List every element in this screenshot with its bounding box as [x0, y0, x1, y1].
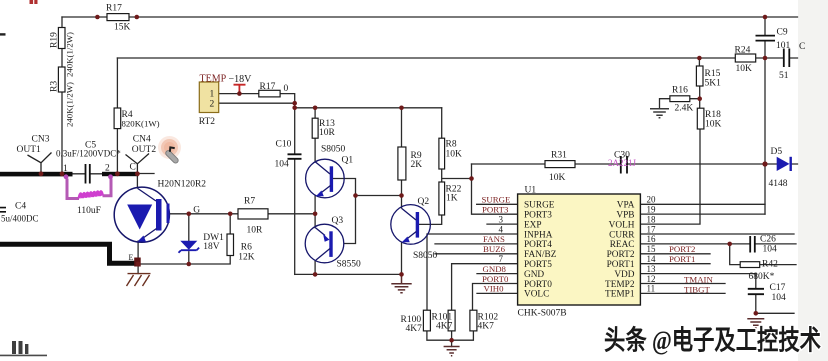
svg-text:H20N120R2: H20N120R2 [158, 180, 207, 190]
wire R8-R22 junction tap y178.5 [442, 169, 472, 182]
wire DW1 leads [188, 214, 190, 264]
wire D5 net horizontal y164 [472, 163, 798, 165]
resistor R15 [696, 66, 703, 86]
svg-text:VIH0: VIH0 [484, 284, 505, 294]
svg-text:15: 15 [647, 244, 657, 254]
wire U1 pin11 stub [640, 292, 725, 294]
svg-text:C26: C26 [760, 235, 776, 245]
svg-text:680K*: 680K* [749, 272, 775, 282]
svg-text:10R: 10R [247, 226, 264, 236]
wire U1 pin1 SURGE stub [477, 203, 518, 205]
right cut-off strip [798, 0, 828, 361]
wire TEMP pin1 to R17(0) [219, 94, 295, 154]
svg-text:12K: 12K [238, 253, 255, 263]
svg-text:C: C [799, 42, 805, 52]
svg-text:4: 4 [499, 224, 504, 234]
ground below R101 [444, 347, 460, 356]
U1 pin names [524, 201, 635, 300]
svg-text:R24: R24 [735, 46, 751, 56]
wire U1 pin4 INPHA to R100 [427, 234, 518, 310]
svg-text:C: C [130, 163, 136, 173]
svg-text:U1: U1 [525, 186, 537, 196]
svg-text:OUT2: OUT2 [132, 145, 157, 155]
wire R4 vertical x117 [116, 58, 118, 173]
svg-text:104: 104 [772, 293, 787, 303]
svg-text:PORT1: PORT1 [669, 254, 695, 264]
capacitor C10 plates [288, 154, 302, 159]
svg-text:51: 51 [779, 71, 789, 81]
connector TEMP RT2 box [199, 82, 218, 113]
wire R6 leads [138, 214, 230, 264]
svg-text:4K7: 4K7 [436, 322, 453, 332]
svg-text:R17: R17 [260, 82, 276, 92]
svg-text:EXP: EXP [524, 220, 542, 230]
transistor Q3 S8550 [305, 224, 344, 263]
svg-text:7: 7 [499, 254, 504, 264]
svg-text:TEMP: TEMP [200, 74, 227, 85]
svg-text:16: 16 [647, 234, 657, 244]
wire TEMP pin2 [219, 102, 295, 104]
svg-text:FANS: FANS [483, 234, 505, 244]
svg-text:R6: R6 [241, 243, 252, 253]
wire U1 pin16 to C26 [640, 243, 796, 245]
wire U1 pin10 VIH0 stub [477, 292, 518, 294]
resistor R13 [312, 118, 318, 138]
svg-text:4148: 4148 [769, 179, 788, 189]
wire rail y58 [117, 57, 797, 59]
wire U1 pin20 [640, 203, 765, 205]
svg-text:REAC: REAC [610, 240, 635, 250]
svg-text:3: 3 [499, 215, 504, 225]
svg-text:10R: 10R [319, 128, 336, 138]
svg-text:CN3: CN3 [32, 135, 50, 145]
power symbol -18V [234, 85, 246, 94]
connector CN4 [126, 154, 150, 173]
U1 right pin numbers [499, 195, 657, 294]
capacitor C5 plates [86, 164, 90, 184]
svg-text:R31: R31 [551, 151, 567, 161]
wire U1 pin13 VDD to C17 [640, 274, 755, 289]
wire CN4 stub right [139, 173, 155, 175]
svg-text:R18: R18 [705, 110, 721, 120]
svg-text:5u/400DC: 5u/400DC [1, 214, 39, 224]
svg-text:11: 11 [647, 284, 656, 294]
IGBT H20N120R2 [114, 187, 169, 242]
connector CN3 [28, 153, 52, 173]
svg-text:110uF: 110uF [77, 206, 101, 216]
svg-text:19: 19 [647, 205, 657, 215]
svg-text:S8050: S8050 [321, 145, 346, 155]
inductor 110uF [67, 179, 111, 199]
svg-text:头条 @电子及工控技术: 头条 @电子及工控技术 [604, 326, 821, 356]
svg-text:820K(1W): 820K(1W) [122, 119, 160, 129]
wire U1 pin19 [640, 213, 765, 215]
svg-text:12: 12 [647, 274, 656, 284]
svg-text:0.3uF/1200VDC*: 0.3uF/1200VDC* [56, 149, 121, 159]
transistor Q2 S8050 [391, 205, 431, 245]
svg-text:TEMP1: TEMP1 [605, 290, 635, 300]
capacitor C9 plates [756, 36, 776, 41]
resistor R17 (15K) [107, 14, 129, 21]
svg-text:CN4: CN4 [133, 135, 151, 145]
wire U1 pin3 EXP stub [487, 223, 518, 225]
wire R19 chain vertical x62 [61, 17, 63, 173]
wire Q2 collector [401, 196, 403, 209]
wire R9 leads [401, 108, 403, 196]
svg-text:VPA: VPA [617, 201, 635, 211]
wire C5 thin links [73, 173, 103, 175]
svg-text:C10: C10 [276, 140, 292, 150]
svg-text:17: 17 [647, 224, 657, 234]
svg-text:PORT0: PORT0 [482, 274, 509, 284]
resistor R6 [227, 234, 234, 256]
wire U1 pin17 [640, 233, 794, 235]
svg-text:R42: R42 [762, 260, 778, 270]
svg-text:1: 1 [210, 90, 215, 100]
svg-text:Q2: Q2 [418, 197, 430, 207]
wire R15 chain x700 [698, 58, 700, 108]
svg-text:CHK-S007B: CHK-S007B [518, 309, 567, 319]
svg-text:101: 101 [776, 41, 791, 51]
wire U1 pin12 stub [640, 283, 725, 285]
resistor R19 [58, 28, 65, 49]
svg-text:104: 104 [763, 245, 778, 255]
IC U1 box [518, 194, 641, 305]
wire top rail y17 right of R17 [129, 16, 798, 18]
svg-text:1K: 1K [446, 194, 458, 204]
svg-text:240K(1/2W): 240K(1/2W) [65, 32, 75, 77]
svg-text:D5: D5 [771, 147, 783, 157]
wire C17 bottom to ground [756, 295, 794, 314]
svg-text:FAN/BZ: FAN/BZ [524, 250, 557, 260]
svg-text:R8: R8 [446, 140, 457, 150]
net labels [482, 195, 714, 295]
wire Q3 collector down [314, 261, 316, 275]
thick bus bottom [0, 244, 136, 263]
wire C9 vertical x765 [764, 17, 766, 214]
svg-text:Q1: Q1 [342, 156, 354, 166]
wire R16 to ground [660, 99, 700, 109]
svg-text:S8550: S8550 [337, 260, 362, 270]
svg-text:C17: C17 [770, 283, 786, 293]
wire U1 pin6 BUZ6 stub [435, 253, 518, 255]
red mark top-left corner [30, 0, 34, 4]
svg-text:GND: GND [524, 270, 544, 280]
capacitor C17 plates [748, 289, 764, 294]
svg-text:PORT2: PORT2 [669, 244, 695, 254]
svg-text:10K: 10K [705, 120, 722, 130]
svg-text:INPHA: INPHA [524, 230, 553, 240]
wire IGBT emitter to slash ground [137, 264, 139, 274]
wire bases to Q2 collector y195.5 [356, 195, 402, 197]
wire R8 top lead [441, 108, 443, 138]
svg-text:PORT1: PORT1 [607, 260, 635, 270]
svg-text:10K: 10K [446, 150, 463, 160]
resistor R7 [238, 209, 268, 219]
wire U1 pin9 PORT0 to R102 [473, 284, 518, 311]
svg-text:14: 14 [647, 254, 657, 264]
svg-text:0: 0 [284, 84, 289, 94]
thick bus top segment 2 [102, 172, 139, 176]
svg-text:10K: 10K [736, 64, 753, 74]
svg-text:104: 104 [275, 160, 290, 170]
svg-text:2: 2 [210, 100, 215, 110]
resistor R22 [439, 182, 445, 215]
svg-text:2: 2 [105, 164, 110, 174]
svg-text:VPB: VPB [616, 211, 634, 221]
resistor R102 [470, 310, 477, 331]
capacitor 51 plates [784, 49, 790, 68]
svg-text:20: 20 [647, 195, 657, 205]
resistor R16 [670, 96, 690, 102]
wire Q2 emitter to ground [401, 243, 403, 274]
svg-text:13: 13 [647, 264, 657, 274]
svg-text:Q3: Q3 [332, 216, 344, 226]
resistor R101 [448, 310, 455, 331]
svg-text:R3: R3 [50, 81, 60, 92]
svg-text:R15: R15 [705, 69, 721, 79]
inductor junction dots (magenta) [64, 174, 69, 179]
svg-text:TMAIN: TMAIN [684, 275, 713, 285]
wire Q1 base to Q3 base x355.5 [333, 179, 355, 244]
svg-text:R19: R19 [50, 32, 60, 48]
resistor R18 [697, 108, 704, 129]
wire IGBT collector [136, 173, 138, 188]
svg-text:TEMP2: TEMP2 [605, 280, 635, 290]
svg-text:C9: C9 [777, 28, 788, 38]
transistor Q1 S8050 [306, 159, 345, 198]
svg-text:SURGE: SURGE [482, 195, 511, 205]
wire U1 pin18 to R18 [640, 129, 700, 224]
ground at R16 [650, 109, 669, 118]
wire U1 pin15 stub [640, 253, 710, 255]
svg-text:PORT3: PORT3 [482, 204, 509, 214]
capacitor C26 plates [750, 236, 755, 253]
resistor R42 [740, 262, 760, 268]
wire R100 R101 R102 bottom rail to ground [427, 331, 474, 347]
svg-text:RT2: RT2 [199, 117, 216, 127]
junction pad on bus at emitter [134, 258, 141, 267]
svg-text:R16: R16 [672, 86, 688, 96]
svg-text:PORT5: PORT5 [524, 260, 552, 270]
capacitor C30 plates [621, 156, 627, 174]
wire -18V rail y107.8 [295, 107, 442, 109]
svg-text:CURR: CURR [609, 230, 635, 240]
svg-text:VOLC: VOLC [524, 290, 549, 300]
svg-text:GND8: GND8 [483, 264, 507, 274]
ground below C17 [747, 319, 764, 328]
resistor R31 [545, 161, 575, 168]
svg-text:4K7: 4K7 [406, 324, 423, 334]
svg-text:VDD: VDD [614, 270, 634, 280]
svg-text:5K1: 5K1 [705, 79, 722, 89]
wire R13 leads [314, 108, 316, 162]
svg-text:R7: R7 [244, 197, 255, 207]
wire IGBT emitter [137, 241, 139, 264]
diode D5 4148 [777, 157, 792, 171]
svg-text:PORT4: PORT4 [524, 240, 552, 250]
resistor R3 [58, 67, 65, 92]
svg-text:18: 18 [647, 214, 657, 224]
left edge tick [0, 33, 6, 35]
svg-text:2A221J: 2A221J [608, 158, 636, 168]
svg-text:C4: C4 [15, 202, 26, 212]
zener DW1 [179, 241, 200, 253]
svg-text:PORT0: PORT0 [524, 280, 552, 290]
wire U1 pin8 GND stub [477, 273, 518, 275]
mouse cursor pointer [158, 136, 181, 164]
svg-text:OUT1: OUT1 [17, 145, 42, 155]
svg-text:2K: 2K [411, 160, 423, 170]
resistor R24 [735, 54, 755, 62]
ground (bar style) below Q2 [391, 274, 411, 292]
svg-text:BUZ6: BUZ6 [483, 244, 506, 254]
svg-text:PORT2: PORT2 [607, 250, 635, 260]
svg-text:2.4K: 2.4K [675, 104, 694, 114]
wire C26 tap to R42 [730, 244, 741, 265]
wire top rail y17 left [62, 16, 107, 18]
svg-text:S8050: S8050 [413, 251, 438, 261]
wire D5 net vertical x471.5 to PORT3 [472, 164, 518, 214]
wire R42 right [760, 264, 796, 266]
svg-text:TIBGT: TIBGT [684, 285, 711, 295]
wire Q2 base to R22 [419, 215, 442, 224]
svg-text:10K: 10K [549, 173, 566, 183]
svg-text:−18V: −18V [229, 74, 253, 85]
thick bus top-left segment 1 [0, 172, 73, 177]
svg-text:1: 1 [63, 164, 68, 174]
svg-text:G: G [193, 206, 200, 216]
wire IGBT gate to R7 [170, 213, 316, 215]
resistor R4 [114, 108, 121, 129]
svg-text:240K(1/2W): 240K(1/2W) [65, 82, 75, 127]
svg-text:SURGE: SURGE [524, 201, 555, 211]
bottom-left partial marks [0, 354, 47, 356]
svg-text:15K: 15K [114, 23, 131, 33]
svg-text:E: E [129, 253, 134, 262]
svg-text:R17: R17 [106, 4, 122, 14]
resistor R8 [439, 138, 445, 169]
wire gnd rail y274.4 [295, 273, 402, 275]
resistor R9 [398, 147, 406, 180]
resistor R100 [423, 310, 430, 331]
ground (slash style) at IGBT emitter [127, 274, 151, 286]
wire C10 bottom to ground rail [294, 159, 296, 275]
svg-text:18V: 18V [203, 242, 220, 252]
wire U1 pin7 PORT5 to R101 [452, 264, 518, 311]
resistor R17 (0) at TEMP [259, 90, 280, 97]
svg-text:PORT3: PORT3 [524, 211, 552, 221]
svg-text:VOLH: VOLH [609, 220, 635, 230]
wire U1 pin5 FANS stub [435, 243, 518, 245]
svg-text:4K7: 4K7 [478, 322, 495, 332]
capacitor C4 plates (cut at edge) [0, 208, 6, 212]
wire Q1 emitter to Q3 [314, 196, 316, 228]
wire U1 pin14 stub [640, 263, 710, 265]
